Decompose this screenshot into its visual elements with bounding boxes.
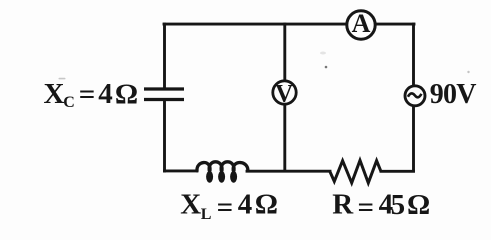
- svg-text:5: 5: [391, 189, 406, 221]
- resistor R: [330, 160, 381, 183]
- capacitor XC: [144, 89, 184, 100]
- ammeter A: [347, 9, 375, 39]
- wire bottom middle: [247, 170, 330, 173]
- AC source 90V: [405, 86, 425, 106]
- scan speck: [325, 66, 328, 69]
- wire middle vertical: [283, 24, 286, 171]
- svg-text:V: V: [275, 80, 293, 107]
- voltmeter V: [273, 80, 296, 107]
- wire left lower: [163, 101, 166, 172]
- svg-text:X: X: [44, 78, 65, 110]
- svg-text:C: C: [63, 94, 75, 111]
- label XC = 4 ohm: [44, 78, 139, 111]
- svg-text:R: R: [332, 188, 354, 220]
- label R = 45 ohm: [332, 188, 430, 223]
- svg-text:Ω: Ω: [407, 189, 430, 221]
- svg-text:=: =: [79, 78, 96, 110]
- label XL = 4 ohm: [180, 189, 278, 224]
- svg-text:4: 4: [98, 78, 113, 110]
- svg-text:=: =: [358, 191, 375, 223]
- svg-text:A: A: [352, 9, 371, 38]
- wire left upper: [163, 24, 166, 88]
- inductor XL: [197, 162, 248, 183]
- svg-text:Ω: Ω: [115, 78, 138, 110]
- wire bottom left: [165, 169, 198, 172]
- svg-text:90V: 90V: [430, 79, 476, 110]
- svg-text:=: =: [217, 192, 234, 224]
- wire right vertical: [412, 24, 415, 171]
- scan speck: [467, 71, 469, 73]
- svg-text:4: 4: [238, 189, 253, 221]
- svg-text:L: L: [201, 206, 212, 223]
- svg-text:Ω: Ω: [255, 189, 278, 221]
- svg-text:X: X: [180, 189, 201, 221]
- wire bottom right: [381, 170, 414, 173]
- scan speck above XC label: [59, 78, 66, 80]
- wire top: [164, 23, 414, 26]
- scan speck: [320, 52, 326, 55]
